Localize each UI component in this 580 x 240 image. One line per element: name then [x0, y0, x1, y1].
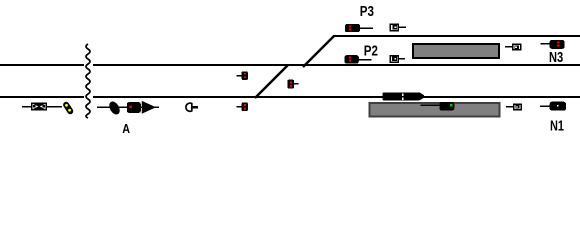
bowtie white cutout left [33, 104, 39, 110]
signal P2 [344, 55, 358, 64]
svg-text:A: A [122, 121, 130, 136]
balise box N1 [514, 104, 521, 110]
track 1 (bottom main) left segment [0, 96, 84, 98]
track 3 (top siding) [333, 35, 580, 37]
svg-text:N3: N3 [549, 49, 563, 66]
signal A head with red lamp [127, 102, 141, 113]
track 1 (bottom main) right segment [93, 96, 580, 98]
svg-text:P2: P2 [364, 42, 378, 59]
wire to release box [22, 106, 62, 108]
wire signal A group [97, 107, 159, 108]
signal A arrow [142, 101, 156, 114]
signal N3 [541, 43, 551, 45]
occupied train block on track1 [382, 92, 419, 100]
balise box P3 [390, 24, 398, 31]
release box (bowtie symbol) [31, 102, 47, 110]
crossover diagonal track1-track2 [255, 65, 288, 98]
crossover diagonal track2-track3 [303, 36, 334, 67]
svg-text:P3: P3 [360, 3, 374, 20]
bowtie white cutout right [40, 104, 46, 110]
wire to platform signal [421, 105, 440, 106]
signal A tilted lens [107, 100, 122, 117]
tilted shunt signal with yellow lamps [62, 101, 74, 116]
svg-text:N1: N1 [550, 117, 564, 134]
signal (2 red lamps) below track1 at x242 [236, 106, 242, 107]
dwarf signal [186, 103, 192, 111]
continuation squiggle (break mark) [86, 44, 90, 118]
balise box N3 [513, 44, 521, 50]
bowtie inner black square right [43, 105, 45, 107]
track 2 (upper main) right segment [93, 64, 580, 66]
bowtie inner black square left [33, 105, 35, 107]
platform signal with green lamp [439, 102, 454, 111]
upper platform [413, 44, 499, 58]
balise box P2 [390, 56, 398, 63]
signal (2 red lamps) at crossover [287, 80, 294, 89]
lower platform [370, 103, 500, 117]
track 2 (upper main) left segment [0, 64, 84, 66]
signal P3 [345, 24, 360, 32]
signal N1 [540, 106, 550, 108]
signal (2 red lamps) below track2 at x242 [236, 75, 242, 76]
